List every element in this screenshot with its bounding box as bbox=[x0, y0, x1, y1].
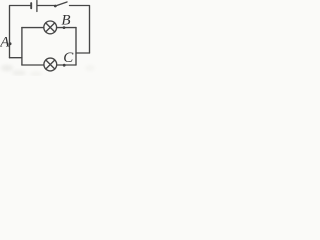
wire branch B left bbox=[22, 27, 44, 29]
lamp B bbox=[44, 21, 57, 34]
wire left T: left rail to left middle rail bbox=[10, 57, 22, 59]
node B dot bbox=[63, 26, 66, 29]
lamp C bbox=[44, 58, 57, 71]
svg-text:A: A bbox=[0, 34, 10, 50]
svg-text:B: B bbox=[61, 13, 70, 29]
wire branch C right bbox=[57, 64, 76, 66]
node C dot bbox=[63, 64, 66, 67]
wire branch C left bbox=[22, 64, 44, 66]
wire top-left: left rail up and across to battery bbox=[10, 6, 31, 58]
battery cell: long plate (right) bbox=[36, 1, 38, 12]
wire switch to top-right corner, right rail down bbox=[70, 6, 90, 54]
node A dot on left rail bbox=[9, 42, 12, 45]
wire right T: right rail to middle rail bbox=[76, 52, 90, 54]
switch S pivot dot bbox=[54, 5, 57, 8]
svg-text:C: C bbox=[63, 50, 74, 66]
wire branch B right bbox=[57, 27, 76, 29]
switch blade (open) bbox=[55, 2, 67, 6]
wire battery to switch bbox=[38, 5, 54, 7]
wire right middle rail vertical bbox=[75, 28, 77, 65]
battery cell: short plate (left) bbox=[30, 3, 32, 8]
wire left middle rail vertical bbox=[21, 28, 23, 65]
